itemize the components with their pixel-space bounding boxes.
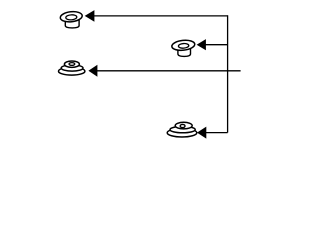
arrowhead to grommet 1 bbox=[85, 10, 95, 22]
arrowhead to grommet 3 bbox=[88, 65, 97, 77]
wire middle horizontal bbox=[97, 70, 241, 72]
wire bottom horizontal bbox=[206, 132, 228, 134]
grommet 1 (flanged bushing, top left) bbox=[60, 11, 83, 28]
arrowhead to grommet 2 bbox=[197, 39, 206, 50]
wire vertical bus bbox=[227, 15, 229, 132]
arrowhead to grommet 4 bbox=[197, 127, 206, 139]
grommet 2 (flanged bushing, middle right) bbox=[171, 39, 195, 56]
wire second horizontal bbox=[206, 44, 228, 46]
wire top horizontal bbox=[94, 15, 228, 17]
grommet 4 (stepped cap, bottom) bbox=[167, 122, 197, 137]
grommet 3 (stepped cap, middle left) bbox=[58, 61, 84, 75]
